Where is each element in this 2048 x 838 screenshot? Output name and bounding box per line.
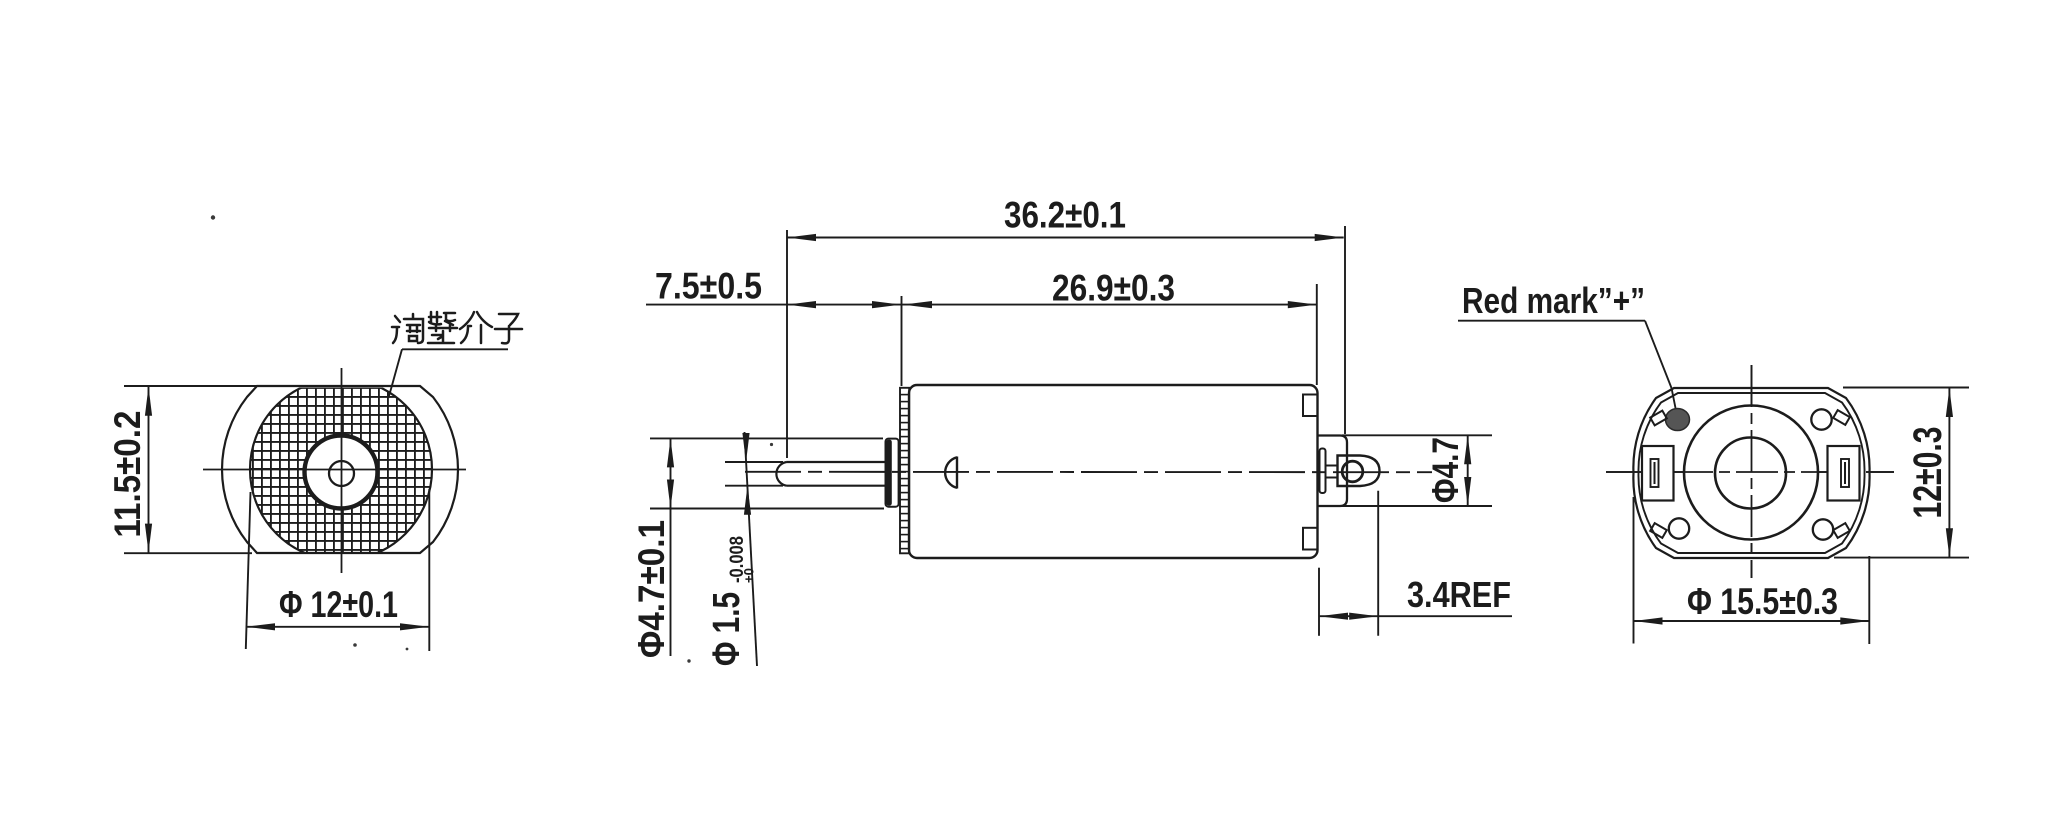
svg-text:Φ 15.5±0.3: Φ 15.5±0.3 [1687,581,1838,622]
svg-text:11.5±0.2: 11.5±0.2 [107,411,148,538]
svg-text:Red mark”+”: Red mark”+” [1462,280,1645,321]
svg-text:7.5±0.5: 7.5±0.5 [655,266,762,307]
svg-text:3.4REF: 3.4REF [1407,574,1511,615]
svg-text:-0.008: -0.008 [727,536,748,583]
svg-text:Φ 12±0.1: Φ 12±0.1 [279,584,398,625]
svg-text:36.2±0.1: 36.2±0.1 [1004,195,1126,236]
svg-text:12±0.3: 12±0.3 [1906,427,1950,519]
svg-text:Φ 1.5: Φ 1.5 [706,592,748,666]
svg-text:Φ4.7±0.1: Φ4.7±0.1 [631,520,672,658]
svg-text:Φ4.7: Φ4.7 [1425,437,1466,503]
svg-text:26.9±0.3: 26.9±0.3 [1052,268,1175,309]
